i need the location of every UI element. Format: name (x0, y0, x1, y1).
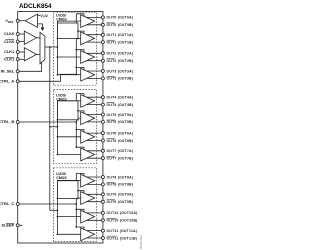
svg-text:OUT4 (OUT4B): OUT4 (OUT4B) (107, 103, 134, 107)
pin SLEEP (16, 224, 19, 227)
wire OUT8A (87, 176, 103, 178)
wire buffer input stub (38, 14, 41, 16)
pin OUT7 (OUT7A) (101, 149, 104, 152)
svg-text:OUT10 (OUT10A): OUT10 (OUT10A) (107, 211, 138, 215)
wire clock to driver 0 (over block) (57, 20, 80, 22)
pin OUT10 (OUT10A) (101, 211, 104, 214)
svg-text:OUT5 (OUT5B): OUT5 (OUT5B) (107, 120, 134, 124)
wire mode ctrl to driver 10 (76, 209, 84, 212)
wire clock to driver 8 (over block) (57, 180, 80, 182)
svg-text:OUT2 (OUT2A): OUT2 (OUT2A) (107, 52, 134, 56)
wire CLK1B to receiver (19, 58, 24, 60)
wire OUT10B (87, 219, 103, 221)
svg-text:09510-001: 09510-001 (139, 235, 143, 249)
svg-text:OUT5 (OUT5A): OUT5 (OUT5A) (107, 113, 134, 117)
wire OUT2B (87, 60, 103, 62)
svg-text:OUT10 (OUT10B): OUT10 (OUT10B) (107, 219, 138, 223)
pin OUT5 (OUT5A) (101, 113, 104, 116)
wire mode ctrl to driver 1 (78, 31, 84, 34)
pin CLK0 (16, 33, 19, 36)
driver OUT6 (81, 130, 95, 143)
pin OUT9bar (OUT9B) (101, 200, 104, 203)
svg-text:OUT9 (OUT9B): OUT9 (OUT9B) (107, 200, 134, 204)
receiver buffer CLK1 pair (24, 48, 36, 61)
pin CTRL_B (16, 121, 19, 124)
pin CLK0B (16, 40, 19, 43)
svg-text:OUT4 (OUT4A): OUT4 (OUT4A) (107, 96, 134, 100)
wire mode ctrl to driver 8 (76, 173, 84, 176)
svg-text:OUT6 (OUT6A): OUT6 (OUT6A) (107, 131, 134, 135)
wire OUT8B (87, 183, 103, 185)
receiver buffer CLK0 pair (24, 31, 36, 45)
wire CTRL_C to group C (19, 203, 76, 205)
driver OUT11 (81, 228, 95, 241)
wire OUT6A (87, 132, 103, 134)
wire SLEEP stub (19, 224, 22, 226)
driver OUT9 (81, 192, 95, 205)
driver OUT2 (81, 51, 95, 64)
wire OUT5B (87, 121, 103, 123)
pin OUT7bar (OUT7B) (101, 157, 104, 160)
pin OUT3bar (OUT3B) (101, 77, 104, 80)
wire mode ctrl to driver 0 (76, 14, 84, 17)
arrow bias down (41, 28, 43, 30)
wire CTRL_B to group B (19, 121, 76, 123)
mode control bus group C upper (75, 173, 77, 180)
group B dashed outline (54, 89, 97, 163)
wire OUT5A (87, 114, 103, 116)
svg-text:OUT11 (OUT11A): OUT11 (OUT11A) (107, 229, 138, 233)
wire CLK0 to receiver (19, 33, 24, 35)
mode control block group C (57, 180, 78, 198)
wire mode ctrl to driver 5 (78, 111, 84, 114)
wire mux output to group A (45, 46, 58, 48)
pin OUT6 (OUT6A) (101, 132, 104, 135)
pin VREF (16, 19, 19, 22)
wire mode ctrl to driver 3 (76, 67, 84, 70)
pin OUT8 (OUT8A) (101, 176, 104, 179)
wire mode ctrl to driver 7 (76, 147, 84, 150)
wire OUT3B (87, 77, 103, 79)
pin CTRL_A (16, 80, 19, 83)
driver OUT1 (81, 32, 95, 45)
wire OUT2A (87, 52, 103, 54)
pin CLK1 (16, 51, 19, 54)
wire VREF pin to buffer (19, 20, 25, 22)
wire OUT7B (87, 157, 103, 159)
driver OUT5 (81, 112, 95, 125)
wire CTRL_A to group A (19, 74, 76, 81)
wire OUT0B (87, 24, 103, 26)
wire OUT9B (87, 201, 103, 203)
svg-text:CTRL_A: CTRL_A (0, 79, 14, 84)
mode control bus group B lower (75, 120, 77, 147)
mode control bus group C lower (75, 198, 77, 227)
wire mode ctrl to driver 4 (76, 94, 84, 97)
wire mode ctrl to driver 11 (76, 227, 84, 230)
pin OUT10bar (OUT10B) (101, 219, 104, 222)
mode control bus group A lower (75, 39, 77, 75)
wire receiver1 to mux (37, 53, 41, 55)
svg-text:OUT3 (OUT3A): OUT3 (OUT3A) (107, 69, 134, 73)
clock trunk vertical bus (49, 47, 51, 210)
svg-text:OUT6 (OUT6B): OUT6 (OUT6B) (107, 139, 134, 143)
wire mode ctrl to driver 2 (76, 50, 84, 53)
pin OUT0 (OUT0A) (101, 16, 104, 19)
mux input select (40, 32, 45, 63)
wire OUT7A (87, 150, 103, 152)
junction CTRL_A joins bus (75, 73, 77, 75)
clock distribution bus group C (56, 181, 58, 235)
wire clock to driver 7 (57, 154, 80, 156)
wire OUT11B (87, 237, 103, 239)
svg-text:CTRL_C: CTRL_C (0, 201, 14, 206)
junction CTRL_B joins bus (75, 121, 77, 123)
mode control block group B (57, 101, 78, 120)
wire OUT11A (87, 230, 103, 232)
overline SLEEP (6, 222, 14, 224)
svg-text:OUT3 (OUT3B): OUT3 (OUT3B) (107, 77, 134, 81)
svg-text:OUT0 (OUT0A): OUT0 (OUT0A) (107, 16, 134, 20)
mode control block group A (57, 23, 78, 39)
chip outline (18, 12, 103, 244)
svg-text:IN_SEL: IN_SEL (1, 69, 15, 74)
svg-text:OUT11 (OUT11B): OUT11 (OUT11B) (107, 236, 138, 240)
wire OUT6B (87, 140, 103, 142)
driver OUT8 (81, 174, 95, 187)
svg-text:OUT7 (OUT7B): OUT7 (OUT7B) (107, 157, 134, 161)
svg-text:OUT7 (OUT7A): OUT7 (OUT7A) (107, 149, 134, 153)
svg-text:OUT0 (OUT0B): OUT0 (OUT0B) (107, 23, 134, 27)
wire mode ctrl to driver 9 (78, 191, 84, 194)
wire clock to driver 11 (57, 233, 80, 235)
junction trunk/groupB feed (49, 126, 51, 128)
wire CLK0B to receiver (19, 41, 24, 43)
svg-text:OUT8 (OUT8A): OUT8 (OUT8A) (107, 175, 134, 179)
mode control bus group B upper (75, 94, 77, 101)
clock distribution bus group B (56, 101, 58, 155)
wire clock to driver 9 (78, 197, 81, 199)
svg-text:VS/2: VS/2 (40, 13, 47, 19)
svg-text:CMOS: CMOS (56, 176, 67, 180)
wire OUT10A (87, 212, 103, 214)
pin OUT8bar (OUT8B) (101, 183, 104, 186)
wire clock to driver 4 (over block) (57, 100, 80, 102)
driver OUT4 (81, 95, 95, 108)
mode control bus group A upper (75, 14, 77, 23)
wire OUT4A (87, 96, 103, 98)
pin OUT11 (OUT11A) (101, 229, 104, 232)
pin OUT6bar (OUT6B) (101, 139, 104, 142)
pin OUT4bar (OUT4B) (101, 103, 104, 106)
pin IN_SEL (16, 70, 19, 73)
wire clock to driver 2 (57, 56, 80, 58)
svg-text:CLK0: CLK0 (4, 31, 14, 36)
wire clock feed group B (50, 126, 58, 128)
pin CTRL_C (16, 203, 19, 206)
junction CTRL_C joins bus (75, 203, 77, 205)
wire clock to driver 10 (57, 216, 80, 218)
group C dashed outline (54, 168, 97, 242)
wire clock feed group C (50, 209, 58, 211)
svg-text:OUT1 (OUT1B): OUT1 (OUT1B) (107, 40, 134, 44)
wire mode ctrl to driver 6 (76, 130, 84, 133)
wire OUT1A (87, 34, 103, 36)
wire CLK1 to receiver (19, 51, 24, 53)
wire OUT3A (87, 70, 103, 72)
svg-text:OUT2 (OUT2B): OUT2 (OUT2B) (107, 59, 134, 63)
pin OUT1bar (OUT1B) (101, 41, 104, 44)
wire OUT1B (87, 41, 103, 43)
svg-text:OUT9 (OUT9A): OUT9 (OUT9A) (107, 193, 134, 197)
wire OUT4B (87, 104, 103, 106)
pin OUT11bar (OUT11B) (101, 237, 104, 240)
pin OUT3 (OUT3A) (101, 70, 104, 73)
wire clock to driver 3 (57, 74, 80, 76)
wire IN_SEL to mux select (19, 62, 41, 71)
wire clock to driver 6 (57, 136, 80, 138)
driver OUT3 (81, 68, 95, 81)
op-amp VREF buffer (25, 14, 37, 27)
pin OUT4 (OUT4A) (101, 96, 104, 99)
driver OUT7 (81, 148, 95, 161)
wire buffer bias (38, 24, 43, 28)
svg-text:ADCLK854: ADCLK854 (19, 3, 52, 10)
pin CLK1B (16, 58, 19, 61)
driver OUT10 (81, 210, 95, 223)
wire OUT0A (87, 16, 103, 18)
pin OUT2bar (OUT2B) (101, 59, 104, 62)
wire OUT9A (87, 193, 103, 195)
svg-text:OUT1 (OUT1A): OUT1 (OUT1A) (107, 33, 134, 37)
svg-text:OUT8 (OUT8B): OUT8 (OUT8B) (107, 183, 134, 187)
pin OUT1 (OUT1A) (101, 33, 104, 36)
pin OUT0bar (OUT0B) (101, 23, 104, 26)
pin OUT5bar (OUT5B) (101, 120, 104, 123)
svg-text:CTRL_B: CTRL_B (0, 119, 14, 124)
svg-text:CMOS: CMOS (56, 17, 67, 21)
wire clock to driver 5 (78, 117, 81, 119)
group A dashed outline (54, 12, 97, 85)
clock distribution bus group A (56, 21, 58, 75)
pin OUT2 (OUT2A) (101, 52, 104, 55)
pin OUT9 (OUT9A) (101, 193, 104, 196)
junction trunk/groupA feed (49, 46, 51, 48)
svg-text:CLK1: CLK1 (4, 49, 15, 54)
wire receiver0 to mux (37, 37, 41, 39)
driver OUT0 (81, 15, 95, 28)
wire clock to driver 1 (78, 37, 81, 39)
